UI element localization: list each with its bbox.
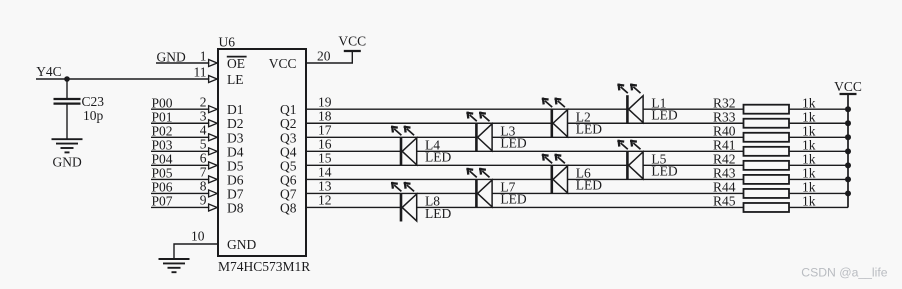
junction Y4C/C23 <box>64 76 70 82</box>
resistor R43 <box>744 175 790 184</box>
svg-text:P02: P02 <box>152 123 173 138</box>
svg-text:17: 17 <box>318 122 332 137</box>
wire P05 to pin 7 <box>151 178 209 180</box>
IC U6 (M74HC573M1R latch) body <box>218 49 306 256</box>
input arrow pin 11 <box>209 76 218 83</box>
svg-text:P05: P05 <box>152 166 173 181</box>
svg-text:1k: 1k <box>802 152 816 167</box>
resistor R41 <box>744 147 790 156</box>
wire P01 to pin 3 <box>151 122 209 124</box>
wire R44 to VCC bus <box>789 192 848 194</box>
svg-text:LE: LE <box>227 72 244 87</box>
LED L8 <box>391 182 417 222</box>
svg-text:CSDN @a__life: CSDN @a__life <box>801 265 887 279</box>
power symbol VCC (bus) <box>840 93 857 95</box>
wire R43 to VCC bus <box>789 178 848 180</box>
svg-text:R41: R41 <box>713 138 736 153</box>
wire Y4C to pin 11 <box>36 78 209 80</box>
svg-text:Q4: Q4 <box>280 144 297 159</box>
LED L2 <box>542 98 568 138</box>
wire Q7 (pin 13) to L7 <box>306 192 476 194</box>
svg-text:9: 9 <box>200 193 207 208</box>
wire L2 to R33 <box>568 122 744 124</box>
input arrow pin 2 <box>209 106 218 113</box>
wire L1 to R32 <box>643 108 743 110</box>
svg-text:10: 10 <box>191 228 205 243</box>
input arrow pin 6 <box>209 162 218 169</box>
svg-text:R45: R45 <box>713 194 736 209</box>
svg-text:Y4C: Y4C <box>36 64 62 79</box>
wire R33 to VCC bus <box>789 122 848 124</box>
svg-text:C23: C23 <box>82 94 105 109</box>
input arrow pin 1 <box>209 60 218 67</box>
input arrow pin 7 <box>209 176 218 183</box>
svg-text:R32: R32 <box>713 95 736 110</box>
wire P06 to pin 8 <box>151 192 209 194</box>
input arrow pin 8 <box>209 190 218 197</box>
LED L7 <box>466 168 492 208</box>
wire P02 to pin 4 <box>151 136 209 138</box>
wire P00 to pin 2 <box>151 108 209 110</box>
svg-text:D5: D5 <box>227 158 244 173</box>
wire L4 to R41 <box>417 150 744 152</box>
LED L6 <box>542 154 568 194</box>
wire pin 20 to VCC <box>306 51 352 63</box>
svg-text:Q6: Q6 <box>280 172 297 187</box>
svg-text:P04: P04 <box>152 152 173 167</box>
svg-text:1k: 1k <box>802 166 816 181</box>
wire pin 1 <box>156 62 209 64</box>
svg-text:Q3: Q3 <box>280 130 297 145</box>
wire Q3 (pin 17) to L3 <box>306 136 476 138</box>
svg-text:P06: P06 <box>152 180 173 195</box>
wire P07 to pin 9 <box>151 206 209 208</box>
svg-text:1k: 1k <box>802 95 816 110</box>
wire VCC bus vertical <box>847 94 849 207</box>
input arrow pin 5 <box>209 148 218 155</box>
svg-text:6: 6 <box>200 151 207 166</box>
junction VCC bus row 2 <box>845 120 851 126</box>
wire pin 10 <box>174 244 218 259</box>
svg-text:10p: 10p <box>83 108 104 123</box>
wire R32 to VCC bus <box>789 108 848 110</box>
wire Q1 (pin 19) to L1 <box>306 108 627 110</box>
junction VCC bus row 5 <box>845 162 851 168</box>
svg-text:18: 18 <box>318 108 332 123</box>
svg-text:R43: R43 <box>713 166 736 181</box>
junction VCC bus row 7 <box>845 190 851 196</box>
svg-text:P01: P01 <box>152 109 173 124</box>
svg-text:11: 11 <box>194 64 207 79</box>
LED L4 <box>391 126 417 166</box>
svg-text:20: 20 <box>317 48 331 63</box>
svg-text:VCC: VCC <box>338 34 366 49</box>
svg-text:14: 14 <box>318 165 332 180</box>
svg-text:16: 16 <box>318 136 332 151</box>
resistor R44 <box>744 189 790 198</box>
svg-text:1k: 1k <box>802 194 816 209</box>
svg-text:1k: 1k <box>802 138 816 153</box>
junction VCC bus row 4 <box>845 148 851 154</box>
svg-text:Q8: Q8 <box>280 200 297 215</box>
svg-text:Q2: Q2 <box>280 116 297 131</box>
input arrow pin 9 <box>209 204 218 211</box>
svg-text:VCC: VCC <box>269 56 297 71</box>
ground (C23) <box>52 138 83 140</box>
svg-text:D2: D2 <box>227 116 244 131</box>
svg-text:R40: R40 <box>713 123 736 138</box>
wire R42 to VCC bus <box>789 164 848 166</box>
svg-text:4: 4 <box>200 122 207 137</box>
wire P03 to pin 5 <box>151 150 209 152</box>
wire L8 to R45 <box>417 206 744 208</box>
resistor R32 <box>744 105 790 114</box>
svg-text:GND: GND <box>227 237 256 252</box>
svg-text:R44: R44 <box>713 180 736 195</box>
wire R45 to VCC bus <box>789 206 848 208</box>
svg-text:D6: D6 <box>227 172 244 187</box>
wire C23 to ground <box>66 104 68 140</box>
svg-text:5: 5 <box>200 137 207 152</box>
input arrow pin 3 <box>209 120 218 127</box>
wire Q6 (pin 14) to L6 <box>306 178 552 180</box>
svg-text:12: 12 <box>318 193 332 208</box>
svg-text:GND: GND <box>53 155 82 170</box>
wire R41 to VCC bus <box>789 150 848 152</box>
svg-text:15: 15 <box>318 150 332 165</box>
resistor R42 <box>744 161 790 170</box>
junction VCC bus row 3 <box>845 134 851 140</box>
wire Q4 (pin 16) to L4 <box>306 150 401 152</box>
svg-text:Q5: Q5 <box>280 158 297 173</box>
svg-text:1k: 1k <box>802 109 816 124</box>
svg-text:P00: P00 <box>152 95 173 110</box>
wire Q2 (pin 18) to L2 <box>306 122 552 124</box>
resistor R45 <box>744 203 790 212</box>
LED L1 <box>617 84 643 124</box>
wire L7 to R44 <box>492 192 743 194</box>
wire L6 to R43 <box>568 178 744 180</box>
svg-text:19: 19 <box>318 94 332 109</box>
wire R40 to VCC bus <box>789 136 848 138</box>
svg-text:7: 7 <box>200 165 207 180</box>
svg-text:U6: U6 <box>219 35 236 50</box>
LED L3 <box>466 112 492 152</box>
svg-text:D1: D1 <box>227 102 244 117</box>
svg-text:OE: OE <box>227 56 245 71</box>
wire P04 to pin 6 <box>151 164 209 166</box>
svg-text:D3: D3 <box>227 130 244 145</box>
wire Q5 (pin 15) to L5 <box>306 164 627 166</box>
resistor R33 <box>744 119 790 128</box>
svg-text:GND: GND <box>157 49 186 64</box>
svg-text:2: 2 <box>200 94 207 109</box>
svg-text:D4: D4 <box>227 144 244 159</box>
power symbol VCC (pin 20) <box>344 50 361 52</box>
svg-text:8: 8 <box>200 179 207 194</box>
ground (pin 10) <box>159 258 190 260</box>
wire Y4C down to C23 <box>66 79 68 99</box>
svg-text:1k: 1k <box>802 123 816 138</box>
svg-text:1k: 1k <box>802 180 816 195</box>
svg-text:R42: R42 <box>713 152 736 167</box>
svg-text:13: 13 <box>318 179 332 194</box>
junction VCC bus row 6 <box>845 176 851 182</box>
input arrow pin 4 <box>209 134 218 141</box>
wire L3 to R40 <box>492 136 743 138</box>
wire L5 to R42 <box>643 164 743 166</box>
svg-text:1: 1 <box>200 48 207 63</box>
svg-text:3: 3 <box>200 108 207 123</box>
svg-text:Q1: Q1 <box>280 102 297 117</box>
svg-text:Q7: Q7 <box>280 186 297 201</box>
svg-text:VCC: VCC <box>834 79 862 94</box>
svg-text:D8: D8 <box>227 200 244 215</box>
svg-text:P07: P07 <box>152 194 173 209</box>
LED L5 <box>617 140 643 180</box>
wire Q8 (pin 12) to L8 <box>306 206 401 208</box>
junction VCC bus row 1 <box>845 106 851 112</box>
resistor R40 <box>744 133 790 142</box>
capacitor C23 <box>54 98 81 100</box>
svg-text:D7: D7 <box>227 186 244 201</box>
svg-text:R33: R33 <box>713 109 736 124</box>
svg-text:P03: P03 <box>152 138 173 153</box>
svg-text:M74HC573M1R: M74HC573M1R <box>218 259 310 274</box>
